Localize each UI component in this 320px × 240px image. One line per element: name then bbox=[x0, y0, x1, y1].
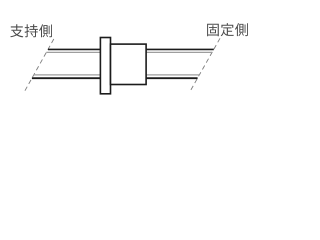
break line right (dashed diagonal) bbox=[190, 38, 220, 91]
wire: shaft left top outline bbox=[48, 48, 101, 50]
flange plate of support unit bbox=[100, 38, 110, 94]
wire: shaft right top thread root line bbox=[146, 51, 213, 53]
wire: shaft left top thread root line bbox=[46, 51, 101, 53]
wire: shaft right top outline bbox=[146, 48, 214, 50]
bearing housing block of support unit bbox=[111, 44, 147, 84]
wire: shaft right bottom outline bbox=[146, 77, 198, 79]
wire: shaft left bottom outline bbox=[32, 77, 101, 79]
wire: shaft right bottom thread root line bbox=[146, 74, 200, 76]
label: supported side (支持側) bbox=[10, 24, 52, 37]
break line left (dashed diagonal) bbox=[25, 39, 54, 92]
label: fixed side (固定側) bbox=[207, 23, 248, 36]
wire: shaft left bottom thread root line bbox=[34, 74, 101, 76]
